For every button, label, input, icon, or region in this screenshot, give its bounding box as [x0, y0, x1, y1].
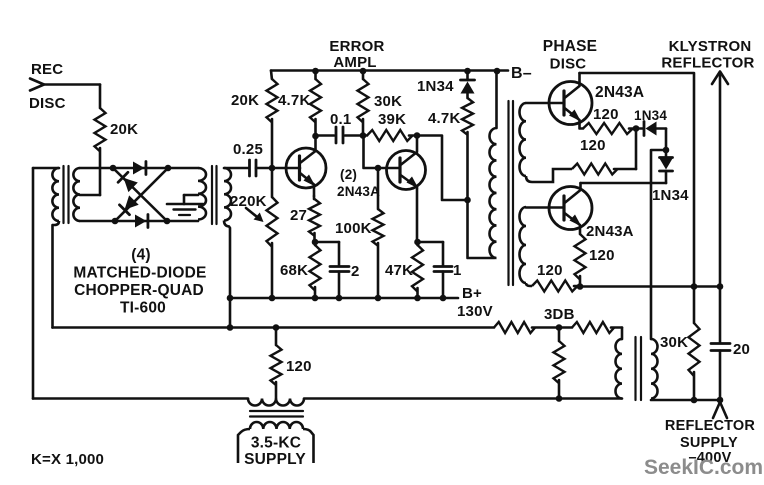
transformer T1 primary winding	[52, 168, 59, 221]
svg-text:SUPPLY: SUPPLY	[680, 435, 738, 451]
svg-text:47K: 47K	[385, 262, 413, 279]
transistor Q3 circle	[549, 82, 592, 125]
svg-text:B+: B+	[462, 285, 482, 302]
resistor R16 3DB left	[494, 322, 535, 333]
wire quad diagonal BL-TR	[115, 168, 168, 221]
arrow on 220K	[246, 208, 259, 219]
svg-text:3.5-KC: 3.5-KC	[251, 435, 301, 452]
transformer T4 right winding	[651, 339, 658, 399]
wire C2 right	[345, 134, 361, 137]
transformer T4 core	[634, 337, 636, 400]
node R4 top	[312, 68, 319, 75]
wire from 20K down to transformer T1 tap	[99, 148, 102, 195]
node junction 30K bottom	[691, 397, 698, 404]
svg-text:30K: 30K	[374, 93, 402, 110]
svg-text:30K: 30K	[660, 334, 688, 351]
wire junction E to C4	[418, 241, 444, 244]
node junction J	[556, 395, 563, 402]
svg-text:120: 120	[589, 247, 615, 264]
transistor Q2 circle	[387, 151, 426, 190]
klystron reflector arrow and line	[719, 72, 722, 343]
wire from REC DISC to 20K resistor	[43, 83, 100, 86]
svg-text:SeekIC.com: SeekIC.com	[644, 456, 763, 479]
wire T3 sec lower top to Q4 base	[526, 206, 564, 209]
resistor R15 120 bottom horizontal	[532, 281, 578, 292]
wire bottom rail B+ 130V	[230, 297, 458, 300]
wire junction B down to Q2 base	[364, 136, 377, 169]
wire junction C to Q2 base	[378, 167, 400, 170]
resistor R2 20K	[267, 79, 278, 122]
resistor R1 20K vertical	[95, 108, 106, 151]
wire chopper quad bottom rail	[80, 220, 198, 223]
diode D2 bottom of chopper quad	[135, 215, 146, 228]
svg-text:20: 20	[733, 341, 750, 358]
svg-text:100K: 100K	[335, 220, 372, 237]
wire top rail B- line	[271, 69, 508, 72]
resistor R3 220K variable	[271, 168, 274, 197]
ground symbol	[184, 194, 198, 197]
node junction D 27/68K	[312, 239, 319, 246]
svg-text:120: 120	[537, 262, 563, 279]
wire rail2 left segment	[53, 326, 495, 329]
diode D3 on diagonal pointing up-left	[124, 178, 138, 192]
wire top rail corner to R2	[270, 71, 273, 80]
node quad top-left junction	[110, 165, 117, 172]
resistor R10 47K	[412, 245, 423, 292]
svg-text:2N43A: 2N43A	[586, 223, 634, 240]
resistor R13 120 middle	[572, 164, 618, 175]
node Q2 collector junction	[414, 132, 421, 139]
diode D1 top of chopper quad	[133, 162, 144, 175]
svg-text:AMPL: AMPL	[333, 54, 376, 71]
capacitor C5 20	[711, 342, 730, 345]
resistor R11 4.7K	[462, 98, 473, 135]
svg-text:1: 1	[453, 262, 462, 279]
node rail1 dots	[227, 295, 234, 302]
diode D7 1N34 vertical pointing down	[665, 150, 668, 158]
transistor Q4 emitter	[565, 213, 581, 234]
svg-text:220K: 220K	[230, 193, 267, 210]
wire junction F down to T3 primary bottom	[468, 200, 495, 258]
transformer T1 primary top lead	[33, 167, 59, 170]
node R5 top	[360, 68, 367, 75]
node quad top-right junction	[165, 165, 172, 172]
svg-text:130V: 130V	[457, 303, 493, 320]
node junction E Q2 emitter/47K	[414, 239, 421, 246]
svg-text:SUPPLY: SUPPLY	[244, 451, 306, 468]
svg-text:2N43A: 2N43A	[595, 84, 644, 101]
wire rail from R14 to cap 20	[580, 285, 720, 288]
node quad bottom-left junction	[112, 218, 119, 225]
wire junction G down to R13	[635, 129, 638, 170]
transformer T3 secondary upper winding	[520, 103, 527, 176]
wire T4 right bottom rail	[651, 399, 720, 402]
transistor Q2 collector	[401, 136, 418, 166]
wire Q2 collector node to junction F	[419, 136, 465, 201]
transistor Q3 base bar	[562, 91, 565, 115]
transformer T3 core	[507, 101, 509, 285]
transformer T3 secondary lower winding	[520, 207, 527, 283]
wire R2 to junction A	[271, 119, 274, 168]
transistor Q1 base bar	[298, 156, 301, 180]
node junction I 3DB	[556, 324, 563, 331]
transistor Q1 circle	[286, 148, 326, 188]
transistor Q1 collector	[300, 136, 316, 163]
svg-text:REFLECTOR: REFLECTOR	[661, 55, 754, 72]
input arrow terminal	[30, 79, 44, 91]
wire Q3 collector rail to klystron branch	[580, 73, 695, 287]
wire chopper quad top rail	[80, 167, 198, 170]
transistor Q3 collector	[565, 73, 580, 98]
resistor R5 30K	[362, 71, 365, 79]
resistor R6 39K horizontal	[367, 130, 413, 141]
svg-text:20K: 20K	[110, 121, 138, 138]
transformer T1 primary bottom lead	[53, 221, 60, 225]
node junction A cap/base	[269, 165, 276, 172]
resistor R20 30K	[693, 287, 696, 324]
svg-text:4.7K: 4.7K	[278, 92, 311, 109]
node rail2 120 junction	[273, 324, 280, 331]
svg-text:DISC: DISC	[550, 56, 587, 73]
svg-text:120: 120	[593, 106, 619, 123]
node junction B 30K bottom	[360, 132, 367, 139]
node rail dots phase disc	[577, 283, 584, 290]
transformer T2 secondary top lead	[224, 167, 248, 170]
svg-text:DISC: DISC	[29, 95, 66, 112]
transformer T1 secondary winding	[73, 168, 80, 221]
svg-text:PHASE: PHASE	[543, 38, 597, 55]
wire T3 sec lower bottom to 120 resistor	[526, 283, 532, 286]
svg-text:3DB: 3DB	[544, 306, 575, 323]
resistor R19 120 to 3.5KC	[275, 328, 278, 346]
node rail2 T2 junction	[227, 324, 234, 331]
svg-text:39K: 39K	[378, 111, 406, 128]
resistor R18 3DB shunt	[558, 328, 561, 342]
svg-text:ERROR: ERROR	[329, 38, 384, 55]
node quad bottom-right junction	[164, 218, 171, 225]
svg-text:0.25: 0.25	[233, 141, 263, 158]
svg-text:TI-600: TI-600	[120, 300, 166, 317]
capacitor C2 0.1	[335, 127, 338, 143]
wire junction H jog to T4 line	[651, 150, 666, 339]
wire C2 left	[317, 134, 334, 137]
node junction reflector supply	[717, 397, 724, 404]
svg-text:KLYSTRON: KLYSTRON	[669, 38, 752, 55]
diode D4 on diagonal pointing down-left	[125, 195, 139, 209]
node T3 primary top junction	[494, 68, 501, 75]
svg-text:K=X 1,000: K=X 1,000	[31, 451, 104, 468]
transformer T1 core	[62, 166, 64, 223]
resistor R12 120 Q3 emitter	[583, 123, 633, 134]
wire T3 sec upper top to Q3 base	[526, 102, 564, 105]
node junction G	[633, 125, 640, 132]
transistor Q2 emitter	[401, 175, 418, 242]
diode D6 1N34 horizontal pointing left	[636, 127, 643, 130]
wire junction A to Q1 base	[274, 167, 300, 170]
node 1N34 top junction	[464, 68, 471, 75]
transformer T5 secondary leads	[238, 429, 250, 463]
transformer T5 secondary winding	[250, 422, 303, 429]
resistor R4 4.7K	[310, 79, 321, 122]
transistor Q4 circle	[549, 187, 592, 230]
svg-text:REC: REC	[31, 61, 63, 78]
svg-text:120: 120	[580, 137, 606, 154]
svg-text:27: 27	[290, 207, 307, 224]
resistor R9 68K	[310, 245, 321, 291]
svg-text:(4): (4)	[131, 247, 151, 264]
transistor Q1 emitter	[300, 173, 314, 196]
node junction C 100K top	[375, 165, 382, 172]
resistor R8 27	[313, 196, 316, 199]
node junction F	[464, 197, 471, 204]
node Q1 collector junction	[312, 133, 319, 140]
transistor Q4 base bar	[562, 196, 565, 220]
transistor Q2 base bar	[398, 158, 401, 182]
wire quad diagonal TL-BR	[113, 168, 167, 221]
transformer T2 secondary bottom lead	[224, 221, 230, 328]
transistor Q4 collector	[565, 183, 581, 203]
wire left outer vertical from T1 to bottom rail	[32, 168, 35, 399]
svg-text:B–: B–	[511, 65, 532, 82]
svg-text:2: 2	[351, 263, 360, 280]
transformer T2 secondary winding	[224, 168, 231, 221]
reflector supply arrow	[713, 402, 720, 418]
svg-text:MATCHED-DIODE: MATCHED-DIODE	[73, 265, 206, 282]
resistor R17 3DB right	[559, 326, 572, 329]
svg-text:4.7K: 4.7K	[428, 110, 461, 127]
node junction H	[663, 147, 670, 154]
diode D5 1N34 vertical pointing up	[466, 71, 469, 80]
svg-text:CHOPPER-QUAD: CHOPPER-QUAD	[74, 282, 204, 299]
svg-text:1N34: 1N34	[652, 187, 689, 204]
svg-text:(2): (2)	[340, 167, 357, 182]
svg-text:1N34: 1N34	[634, 108, 667, 123]
svg-text:0.1: 0.1	[330, 111, 351, 128]
resistor R7 100K	[377, 168, 380, 209]
svg-text:68K: 68K	[280, 262, 308, 279]
svg-text:2N43A: 2N43A	[337, 184, 380, 199]
wire R11 to junction F	[466, 132, 469, 200]
transistor Q3 emitter	[565, 108, 584, 129]
svg-text:REFLECTOR: REFLECTOR	[665, 418, 755, 434]
capacitor C1 0.25	[248, 160, 251, 176]
svg-text:1N34: 1N34	[417, 78, 454, 95]
wire bottom rail3	[33, 397, 248, 400]
svg-text:20K: 20K	[231, 92, 259, 109]
wire T3 sec upper bottom to 120 middle resistor	[526, 169, 572, 182]
wire junction D to C3	[315, 241, 339, 244]
transformer T3 primary winding	[490, 128, 497, 258]
transformer T4 left winding	[616, 339, 622, 399]
resistor R14 120 Q4 emitter	[575, 234, 586, 280]
wire D7 to Q4 collector	[581, 182, 667, 185]
transformer T5 primary winding	[248, 399, 304, 406]
transformer T2 core	[211, 166, 213, 224]
capacitor C3 2	[330, 265, 349, 268]
transformer T5 core	[250, 410, 303, 412]
wire cap 0.25 to junction	[256, 167, 270, 170]
svg-text:120: 120	[286, 358, 312, 375]
wire B- rail to T3 primary	[495, 71, 498, 128]
transformer T2 primary winding	[198, 168, 206, 220]
capacitor C4 1	[434, 265, 452, 268]
